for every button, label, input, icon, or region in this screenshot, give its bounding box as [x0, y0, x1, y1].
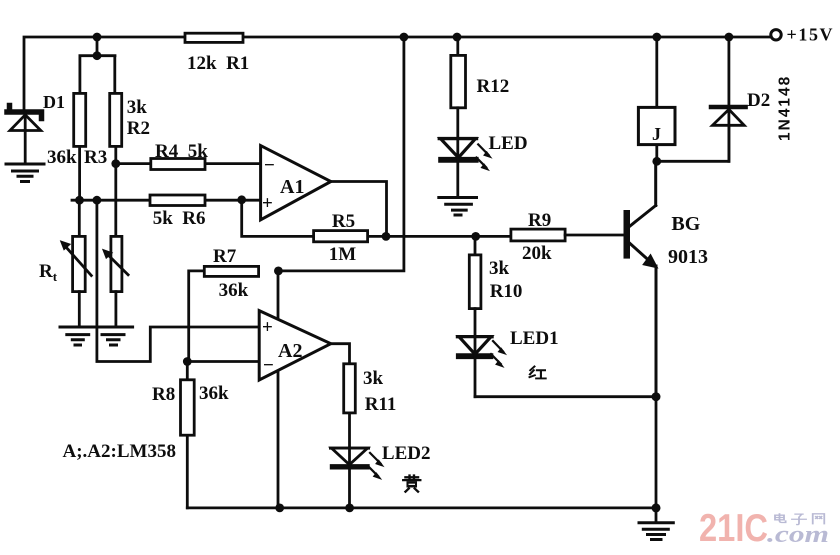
- label LED: [489, 133, 528, 154]
- node bottom emitter: [652, 503, 661, 512]
- svg-text:R5: R5: [332, 211, 355, 232]
- resistor R7: [189, 266, 259, 361]
- LED1 arrows: [491, 341, 506, 367]
- wire R4 line: [116, 162, 261, 165]
- op-amp A1: [261, 146, 331, 220]
- LED1: [458, 337, 493, 397]
- resistor R11: [344, 364, 356, 448]
- op-amp A2: [259, 311, 331, 380]
- variable resistor (bridge arm): [103, 236, 128, 325]
- resistor R1: [185, 33, 243, 42]
- svg-text:+15V: +15V: [787, 25, 835, 45]
- node R5 left tap: [237, 195, 246, 204]
- node rail relay J: [652, 33, 661, 42]
- resistor R6: [150, 195, 205, 206]
- svg-text:36k: 36k: [219, 280, 249, 301]
- label R11: [363, 368, 396, 415]
- svg-text:R7: R7: [213, 246, 237, 267]
- wire J to D2 bottom: [657, 125, 729, 161]
- LED (green): [439, 139, 476, 197]
- node top rail to R7 feed: [400, 33, 409, 42]
- svg-text:R4 5k: R4 5k: [155, 141, 208, 162]
- resistor R5: [314, 231, 368, 242]
- svg-text:5k R6: 5k R6: [153, 208, 206, 229]
- watermark 21IC: [699, 507, 829, 550]
- svg-text:A1: A1: [280, 176, 304, 198]
- wire +15V top rail: [24, 37, 771, 109]
- node bottom LED2: [345, 504, 354, 513]
- svg-text:3k: 3k: [489, 258, 510, 279]
- label R10: [489, 258, 522, 302]
- svg-text:+: +: [262, 317, 273, 338]
- node A2+ tap junction: [93, 196, 102, 205]
- ground bottom right: [639, 523, 673, 540]
- svg-text:−: −: [263, 355, 274, 376]
- svg-text:R8: R8: [152, 384, 175, 405]
- label R7: [213, 246, 249, 301]
- svg-text:D2: D2: [747, 90, 770, 111]
- wire R5 line: [242, 200, 511, 237]
- wire bottom rail: [187, 397, 656, 521]
- svg-text:R3: R3: [84, 147, 107, 168]
- node LED1 emitter junction: [652, 392, 661, 401]
- resistor R4: [151, 159, 205, 170]
- diode D1 (zener): [7, 106, 42, 164]
- node dot split bar: [93, 51, 102, 60]
- svg-text:−: −: [264, 155, 275, 176]
- svg-text:.com: .com: [767, 522, 829, 548]
- wire A2 plus tap: [97, 200, 260, 361]
- wire A2 minus input: [187, 360, 260, 363]
- ground under variable resistor: [96, 327, 133, 345]
- node collector junction: [652, 157, 661, 166]
- resistor R3: [74, 93, 86, 200]
- label R12: [477, 76, 510, 97]
- label R4: [155, 141, 208, 162]
- svg-text:R12: R12: [477, 76, 510, 97]
- LED2 arrows: [368, 453, 383, 479]
- label yellow (huang): [403, 476, 420, 492]
- svg-text:J: J: [652, 124, 661, 144]
- svg-text:LED: LED: [489, 133, 528, 154]
- svg-text:BG: BG: [671, 213, 700, 235]
- node rail D2: [725, 33, 734, 42]
- label LED1: [510, 328, 559, 349]
- LED2: [331, 448, 369, 508]
- svg-text:R10: R10: [490, 281, 523, 302]
- label R2: [127, 97, 150, 139]
- node bottom A2 line: [275, 504, 284, 513]
- node R2 bottom / R4: [111, 159, 120, 168]
- transistor BG 9013: [624, 161, 658, 396]
- label op-amp type LM358: [63, 441, 176, 462]
- svg-text:9013: 9013: [668, 246, 708, 268]
- svg-text:36k: 36k: [199, 383, 229, 404]
- svg-text:R11: R11: [365, 394, 397, 415]
- svg-text:A2: A2: [278, 340, 302, 362]
- label R1 value: [187, 53, 249, 74]
- node dot top rail R2R3: [93, 33, 102, 42]
- LED arrows: [476, 144, 491, 170]
- label R5: [329, 211, 357, 265]
- label D2: [747, 90, 770, 111]
- svg-text:1N4148: 1N4148: [777, 75, 794, 141]
- wire A1 output: [331, 182, 387, 237]
- resistor R12: [451, 37, 466, 139]
- label 1N4148: [777, 75, 794, 141]
- svg-text:R2: R2: [127, 118, 150, 139]
- ground under D1: [6, 164, 44, 182]
- svg-text:21IC: 21IC: [699, 507, 768, 550]
- label D1: [43, 92, 65, 112]
- svg-text:3k: 3k: [127, 97, 148, 118]
- label BG: [668, 213, 708, 268]
- svg-text:12k R1: 12k R1: [187, 53, 249, 74]
- resistor R10: [469, 236, 481, 336]
- svg-text:R9: R9: [528, 210, 551, 231]
- svg-text:36k: 36k: [47, 147, 77, 168]
- node A2 minus junction: [183, 357, 192, 366]
- label LED2: [382, 443, 431, 464]
- wire through A2 to bottom rail: [277, 271, 280, 508]
- wire +15V down to R7 line: [278, 37, 404, 271]
- relay J: [638, 37, 675, 161]
- node top-left split: [80, 37, 115, 93]
- label R9: [522, 210, 552, 264]
- ground under Rt: [60, 327, 96, 345]
- label R6: [153, 208, 206, 229]
- svg-text:+: +: [262, 193, 273, 214]
- terminal +15V: [771, 25, 834, 45]
- svg-text:D1: D1: [43, 92, 65, 112]
- svg-text:3k: 3k: [363, 368, 384, 389]
- label R3: [47, 147, 107, 168]
- wire A2 output to R11: [331, 344, 350, 364]
- svg-text:LED1: LED1: [510, 328, 559, 349]
- wire LED1 to emitter rail: [475, 395, 656, 398]
- svg-text:1M: 1M: [329, 244, 357, 265]
- resistor R8: [181, 362, 195, 508]
- node R7 right junction: [274, 267, 283, 276]
- label R8: [152, 383, 229, 405]
- ground under LED: [439, 198, 477, 216]
- resistor R9: [511, 229, 624, 241]
- svg-text:LED2: LED2: [382, 443, 431, 464]
- wire R6 line: [72, 199, 261, 202]
- resistor R2: [110, 93, 122, 236]
- svg-text:A;.A2:LM358: A;.A2:LM358: [63, 441, 176, 462]
- label red (hong): [530, 366, 546, 378]
- thermistor Rt: [61, 200, 92, 325]
- node A1 output / R5: [382, 232, 391, 241]
- node rail R12: [453, 33, 462, 42]
- diode D2: [711, 37, 746, 161]
- node R5-R9 / R10 tap: [471, 232, 480, 241]
- svg-text:20k: 20k: [522, 243, 552, 264]
- node R3-Rt junction: [75, 196, 84, 205]
- label Rt: [39, 261, 58, 284]
